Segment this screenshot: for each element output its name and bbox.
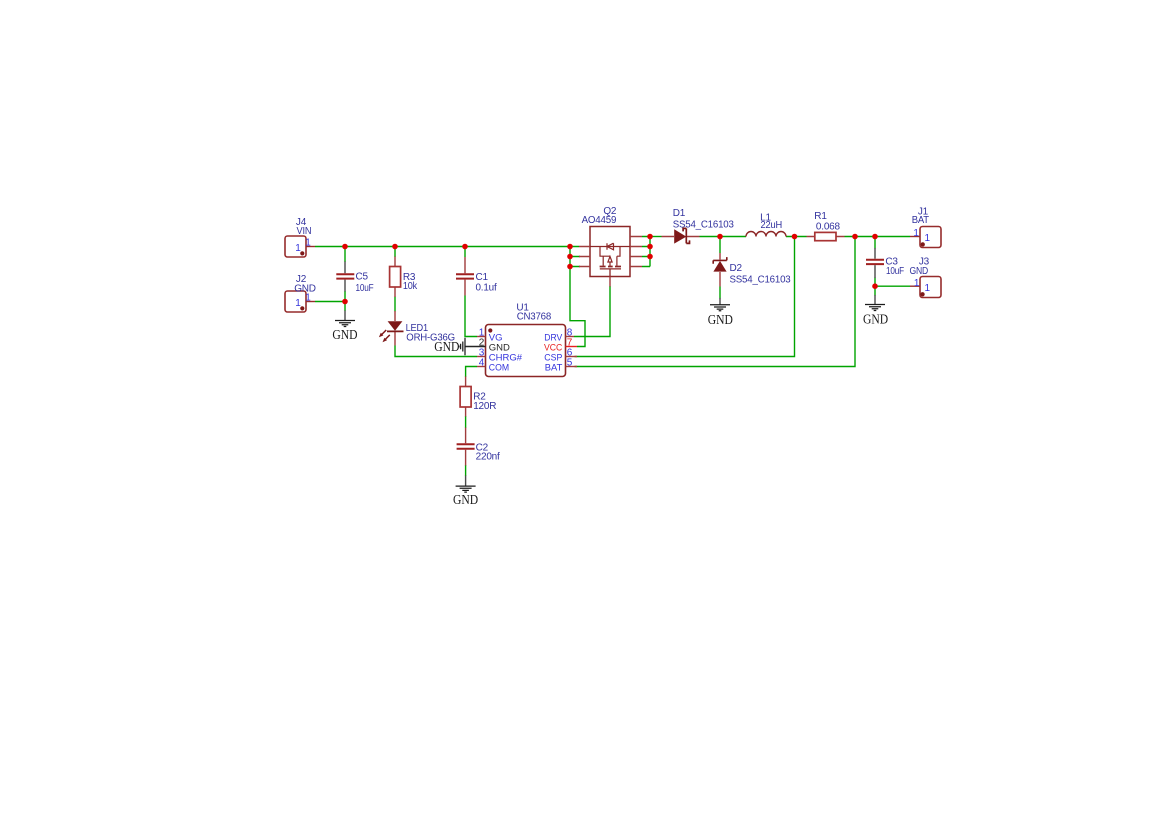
label U1 value CN3768 bbox=[517, 312, 552, 323]
connector J3 bbox=[910, 277, 941, 298]
svg-text:5: 5 bbox=[567, 357, 573, 368]
wire D2 top drop bbox=[719, 237, 721, 254]
diode D1 schottky bbox=[662, 228, 700, 243]
label J1 bbox=[918, 206, 929, 217]
inductor L1 bbox=[746, 232, 786, 237]
svg-text:SS54_C16103: SS54_C16103 bbox=[673, 220, 735, 231]
svg-text:10uF: 10uF bbox=[886, 266, 904, 277]
connector J4 bbox=[285, 236, 315, 257]
svg-text:R1: R1 bbox=[814, 211, 827, 222]
U1 pin 6 CSP bbox=[544, 347, 577, 363]
wire R1 to J1 bbox=[845, 236, 911, 238]
label J4 bbox=[296, 217, 307, 228]
resistor R2 bbox=[460, 377, 471, 417]
U1 pin 5 BAT bbox=[545, 357, 577, 373]
svg-text:BAT: BAT bbox=[545, 362, 563, 373]
label J2 bbox=[296, 274, 307, 285]
svg-text:SS54_C16103: SS54_C16103 bbox=[730, 275, 792, 286]
label VIN bbox=[297, 226, 312, 237]
wire C1 top drop bbox=[464, 247, 466, 258]
wire R3 top drop bbox=[394, 247, 396, 258]
connector J2 bbox=[285, 291, 315, 312]
wire R3 to LED1 bbox=[394, 297, 396, 312]
wire C3 top drop bbox=[874, 237, 876, 249]
svg-text:COM: COM bbox=[489, 362, 509, 373]
label Q2 bbox=[603, 206, 617, 217]
U1 pin 3 CHRG# bbox=[477, 347, 523, 363]
wire Q2 left pin bus bbox=[570, 247, 580, 267]
ground below C5 bbox=[332, 311, 357, 343]
U1 pin 2 GND with ground symbol bbox=[434, 337, 510, 355]
IC U1 CN3768 bbox=[486, 325, 566, 377]
wire C1 to U1 pin1 bbox=[465, 296, 477, 337]
connector J1 bbox=[910, 227, 941, 248]
label C2 value bbox=[476, 452, 500, 463]
svg-text:1: 1 bbox=[913, 228, 919, 239]
svg-text:CN3768: CN3768 bbox=[517, 312, 552, 323]
ground below C3 bbox=[863, 295, 888, 328]
ground below D2 bbox=[708, 298, 733, 328]
capacitor C1 bbox=[456, 257, 474, 296]
svg-text:GND: GND bbox=[332, 328, 357, 343]
svg-text:C5: C5 bbox=[356, 272, 369, 283]
wire C2 to GND stem bbox=[465, 465, 467, 476]
svg-text:GND: GND bbox=[910, 266, 929, 277]
svg-text:220nf: 220nf bbox=[476, 452, 500, 463]
label R1 bbox=[814, 211, 827, 222]
U1 pin 1 VG bbox=[477, 327, 503, 343]
wire L1 to R1 bbox=[786, 236, 807, 238]
svg-text:10uF: 10uF bbox=[356, 283, 374, 294]
label C1 value bbox=[476, 283, 497, 294]
svg-text:1: 1 bbox=[925, 233, 931, 244]
svg-text:0.1uf: 0.1uf bbox=[476, 283, 497, 294]
label J3 bbox=[919, 256, 930, 267]
label C3 bbox=[885, 256, 898, 267]
label R3 bbox=[403, 272, 416, 283]
svg-text:GND: GND bbox=[434, 340, 459, 355]
svg-text:BAT: BAT bbox=[912, 215, 929, 226]
label LED1 value bbox=[406, 333, 455, 344]
svg-text:AO4459: AO4459 bbox=[582, 215, 617, 226]
svg-text:GND: GND bbox=[294, 284, 316, 295]
label U1 bbox=[516, 303, 529, 314]
svg-text:1: 1 bbox=[295, 243, 301, 254]
svg-text:22uH: 22uH bbox=[761, 220, 783, 231]
diode D2 schottky bbox=[713, 253, 727, 287]
label R2 value bbox=[473, 401, 496, 412]
label C2 bbox=[476, 443, 489, 454]
svg-text:10k: 10k bbox=[403, 281, 418, 292]
svg-text:VIN: VIN bbox=[297, 226, 312, 237]
svg-text:GND: GND bbox=[863, 313, 888, 328]
wire Q2 right pin bus bbox=[642, 237, 650, 267]
svg-text:1: 1 bbox=[305, 237, 311, 248]
resistor R3 bbox=[390, 257, 401, 298]
svg-text:D2: D2 bbox=[730, 263, 743, 274]
label D2 value bbox=[730, 275, 792, 286]
U1 pin 8 DRV bbox=[544, 327, 574, 343]
label D1 value bbox=[673, 220, 735, 231]
capacitor C5 bbox=[336, 262, 354, 292]
svg-text:0.068: 0.068 bbox=[816, 221, 841, 232]
ground below C2 bbox=[453, 476, 478, 509]
label LED1 bbox=[406, 323, 429, 334]
label R1 value bbox=[816, 221, 841, 232]
wire R2 to C2 bbox=[465, 416, 467, 428]
label R2 bbox=[473, 392, 486, 403]
label C5 bbox=[356, 272, 369, 283]
U1 pin 7 VCC bbox=[544, 337, 577, 353]
svg-text:120R: 120R bbox=[473, 401, 496, 412]
wire LED1 to U1 pin3 bbox=[395, 346, 477, 357]
wire Q2 source to U1 pin7 VCC bbox=[570, 267, 585, 347]
label D2 bbox=[730, 263, 743, 274]
svg-text:D1: D1 bbox=[673, 208, 686, 219]
label J3 GND bbox=[910, 266, 929, 277]
wire C5 bottom to GND net bbox=[344, 291, 346, 311]
label Q2 value AO4459 bbox=[582, 215, 617, 226]
wire Q2 gate to U1 pin8 DRV bbox=[574, 286, 610, 337]
label L1 bbox=[760, 212, 771, 223]
label J1 BAT bbox=[912, 215, 929, 226]
wire J2 to C5 node bbox=[315, 301, 345, 303]
label L1 value bbox=[761, 220, 783, 231]
wire C5 top drop bbox=[344, 247, 346, 263]
label C5 value bbox=[356, 283, 374, 294]
label C1 bbox=[476, 272, 489, 283]
label J2 GND bbox=[294, 284, 316, 295]
wire U1 pin4 to R2 bbox=[466, 367, 477, 378]
label C3 value bbox=[886, 266, 904, 277]
wire CSP net to U1 pin6 bbox=[575, 237, 795, 357]
wire Q2 drain to D1 anode bbox=[650, 236, 662, 238]
svg-text:GND: GND bbox=[453, 493, 478, 508]
label R3 value bbox=[403, 281, 418, 292]
svg-text:4: 4 bbox=[479, 357, 485, 368]
svg-text:GND: GND bbox=[708, 313, 733, 328]
capacitor C3 bbox=[866, 248, 884, 278]
U1 pin 4 COM bbox=[477, 357, 509, 373]
wire D1 cathode to L1 with D2 tap bbox=[700, 236, 747, 238]
wire D2 anode to GND stem bbox=[719, 287, 721, 299]
resistor R1 bbox=[807, 232, 845, 240]
transistor Q2 AO4459 bbox=[579, 227, 642, 287]
label D1 bbox=[673, 208, 686, 219]
wire VIN rail J4 to Q2 bbox=[315, 246, 579, 248]
svg-text:1: 1 bbox=[295, 298, 301, 309]
wire BAT net to U1 pin5 bbox=[575, 237, 856, 367]
junction dots bbox=[342, 234, 878, 305]
capacitor C2 bbox=[457, 428, 475, 466]
svg-text:1: 1 bbox=[914, 278, 920, 289]
wire C3 bottom to J3 and GND bbox=[875, 278, 910, 296]
svg-text:1: 1 bbox=[925, 283, 931, 294]
LED LED1 bbox=[379, 311, 404, 346]
